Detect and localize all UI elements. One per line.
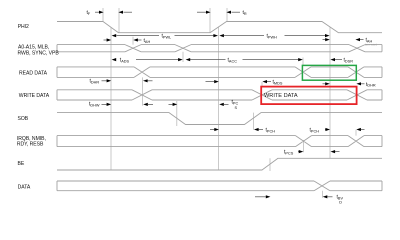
svg-text:tDHW: tDHW [89,102,100,108]
svg-text:BE: BE [18,161,25,167]
svg-text:S: S [235,106,238,110]
svg-text:tPCS: tPCS [284,150,294,156]
svg-text:RWB, SYNC, VPB: RWB, SYNC, VPB [18,51,60,57]
svg-text:D: D [339,201,342,205]
svg-text:tMDS: tMDS [273,80,283,86]
svg-text:tPWH: tPWH [267,34,278,40]
svg-text:tDHR: tDHR [366,82,376,88]
svg-text:tAH: tAH [144,38,151,44]
svg-text:tF: tF [87,10,91,16]
svg-text:tDSR: tDSR [344,58,354,64]
svg-text:tACC: tACC [228,58,238,64]
svg-text:tPWL: tPWL [162,34,172,40]
svg-text:DATA: DATA [18,184,31,190]
svg-text:tDHR: tDHR [90,79,100,85]
svg-text:A0-A15, MLB,: A0-A15, MLB, [18,44,49,50]
svg-text:tADS: tADS [120,58,130,64]
svg-text:(see note): (see note) [365,42,377,46]
svg-text:WRITE DATA: WRITE DATA [19,93,50,99]
svg-text:SOB: SOB [18,116,29,122]
svg-text:tR: tR [243,10,247,16]
svg-text:tPCH: tPCH [310,128,320,134]
svg-text:tPC: tPC [232,100,239,106]
svg-text:WRITE DATA: WRITE DATA [264,93,298,99]
svg-text:READ DATA: READ DATA [19,70,48,76]
svg-text:PHI2: PHI2 [18,24,29,30]
svg-text:tPCH: tPCH [266,128,276,134]
svg-text:RDY, RESB: RDY, RESB [17,142,44,148]
